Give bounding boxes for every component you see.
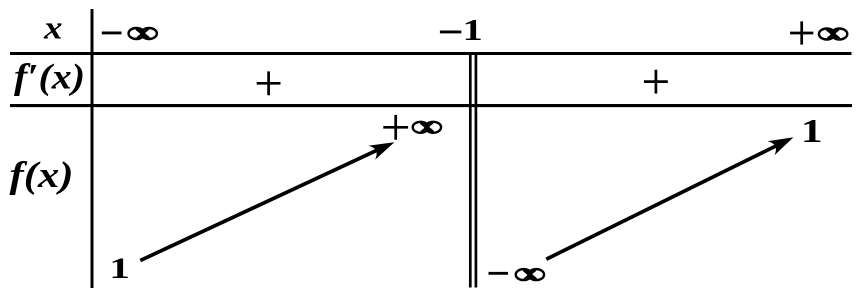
svg-text:x: x — [43, 10, 63, 46]
label -1 in x row above double rule — [440, 12, 483, 46]
increasing variation arrow on left interval — [140, 142, 394, 260]
horizontal rule below f-prime row — [10, 104, 852, 107]
svg-text:f(x): f(x) — [10, 155, 74, 196]
svg-text:f′(x): f′(x) — [14, 57, 85, 97]
svg-text:1: 1 — [109, 252, 130, 285]
svg-text:1: 1 — [463, 12, 483, 46]
label plus-infinity in x row (right end) — [790, 21, 847, 44]
plus sign of f-prime on right interval — [644, 70, 668, 94]
label minus-infinity at bottom right of double rule — [489, 269, 545, 280]
increasing variation arrow on right interval — [546, 137, 793, 259]
label plus-infinity at top of left arrow — [383, 115, 441, 140]
plus sign of f-prime on left interval — [257, 71, 281, 95]
horizontal rule below x row — [10, 52, 852, 55]
svg-text:1: 1 — [801, 113, 823, 150]
double vertical rule at x=-1, right stroke — [475, 52, 478, 288]
left vertical header separator line — [91, 9, 94, 288]
value 1 at top right of f row — [801, 113, 823, 150]
value 1 at bottom left of f row — [109, 252, 130, 285]
double vertical rule at x=-1, left stroke — [469, 52, 472, 288]
label minus-infinity in x row (left end) — [102, 28, 157, 39]
